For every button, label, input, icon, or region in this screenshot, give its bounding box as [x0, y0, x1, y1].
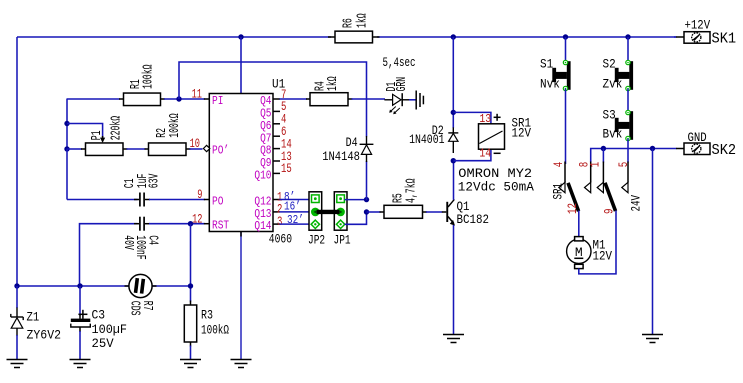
- svg-text:15: 15: [281, 162, 292, 176]
- zener Z1: [11, 308, 23, 337]
- wire JP1 bottom to node: [345, 211, 367, 224]
- label JP1: [334, 233, 351, 248]
- svg-text:JP1: JP1: [334, 233, 351, 248]
- wire pin1 drop: [602, 149, 604, 163]
- svg-text:S1: S1: [540, 57, 553, 72]
- wire Q14 to JP2: [280, 223, 312, 225]
- pin 4 Q6: [260, 113, 286, 133]
- junction node top-relay: [451, 34, 456, 39]
- wire Q12 to JP2: [280, 199, 312, 201]
- svg-text:Z1: Z1: [27, 310, 40, 325]
- junction node rail-R3: [188, 283, 193, 288]
- wire ground rail: [17, 285, 191, 287]
- svg-text:PO’: PO’: [212, 143, 229, 157]
- wire C1 left: [67, 199, 138, 201]
- svg-text:JP2: JP2: [308, 233, 325, 248]
- wire S2 top: [627, 37, 629, 60]
- pin 15 Q10: [254, 162, 291, 182]
- label SK2: [712, 142, 737, 159]
- potentiometer P1 leads: [81, 148, 128, 150]
- svg-text:5: 5: [617, 162, 631, 168]
- switch S1: [552, 60, 570, 90]
- label R6 value: [342, 13, 371, 28]
- junction node D4-R5: [364, 209, 369, 214]
- label P1 value: [90, 116, 125, 141]
- pin 12 RST: [192, 212, 229, 232]
- wire left rail: [16, 37, 18, 286]
- svg-text:1: 1: [589, 162, 603, 168]
- svg-text:25V: 25V: [92, 336, 114, 351]
- wire Q4 to R4: [280, 98, 308, 100]
- label U1: [272, 77, 285, 92]
- label R3: [201, 308, 229, 338]
- svg-text:R6: R6: [342, 18, 357, 28]
- svg-text:4: 4: [552, 162, 566, 168]
- capacitor C4: [134, 217, 150, 231]
- wire Z1 top: [16, 286, 18, 308]
- junction node top-IC: [238, 34, 243, 39]
- ground right: [642, 335, 663, 343]
- svg-text:1N4001: 1N4001: [409, 133, 444, 147]
- wire right ground drop: [652, 149, 654, 335]
- svg-text:RST: RST: [212, 219, 229, 233]
- junction node rail-left: [14, 283, 19, 288]
- label SK1: [712, 31, 737, 48]
- svg-text:ZY6V2: ZY6V2: [27, 328, 62, 343]
- label JP2: [308, 233, 325, 248]
- svg-text:32’: 32’: [287, 214, 304, 227]
- wire wiper: [67, 124, 103, 139]
- label C4 value: [120, 235, 159, 260]
- label timing: [383, 56, 416, 70]
- connector SK1: [684, 32, 710, 44]
- svg-text:12V: 12V: [593, 249, 613, 264]
- svg-text:220kΩ: 220kΩ: [110, 116, 125, 141]
- wire S1 to contact 4: [565, 89, 567, 165]
- label S3: [603, 108, 623, 142]
- label C3: [92, 308, 128, 352]
- wire R4 to LED: [352, 98, 386, 100]
- label SR1: [512, 116, 532, 141]
- wire P1 left lead: [67, 148, 82, 150]
- svg-text:Zvk: Zvk: [603, 77, 623, 92]
- wire C3 top: [79, 286, 81, 316]
- wire S1 top: [565, 37, 567, 60]
- svg-text:9: 9: [602, 209, 616, 215]
- svg-text:4060: 4060: [269, 232, 292, 247]
- svg-text:11: 11: [192, 88, 202, 102]
- wire node to R5: [367, 211, 381, 213]
- junction node gnd drop: [650, 146, 655, 151]
- wire R5 to base: [426, 211, 443, 213]
- label S1: [540, 57, 560, 92]
- wire to SK2: [676, 148, 684, 150]
- ground Q1: [443, 335, 464, 343]
- jumper JP1 body: [334, 192, 347, 230]
- label Z1: [27, 310, 62, 343]
- wire Z1 bottom: [16, 335, 18, 359]
- resistor R1: [124, 93, 161, 106]
- label R1 value: [129, 65, 157, 90]
- diode D1 LED: [384, 93, 410, 114]
- label 24V: [629, 195, 643, 212]
- potentiometer P1 wiper arrow: [100, 136, 105, 143]
- ground C3: [70, 360, 91, 368]
- label R7 value: [127, 301, 154, 316]
- resistor R5 leads: [380, 211, 428, 213]
- svg-text:C3: C3: [92, 308, 106, 323]
- svg-text:100µF: 100µF: [92, 322, 128, 337]
- label pin 8: [577, 162, 591, 168]
- junction node pin11: [176, 96, 181, 101]
- label C3 plus: [78, 310, 87, 319]
- label +12V: [685, 18, 711, 33]
- svg-text:4,7kΩ: 4,7kΩ: [405, 179, 420, 204]
- wire R3 bottom: [190, 346, 192, 360]
- ground R3: [180, 360, 201, 368]
- label D1: [385, 77, 410, 92]
- svg-text:24V: 24V: [629, 195, 643, 212]
- pin 11 PI: [192, 88, 224, 108]
- wire P1 feed vertical: [66, 99, 68, 150]
- wire C4 right to pin 12: [149, 223, 205, 225]
- svg-text:S2: S2: [603, 57, 616, 72]
- contact pin 5: [622, 162, 628, 193]
- wire P1-R2: [127, 148, 146, 150]
- resistor R3 leads: [190, 301, 192, 347]
- svg-text:GRN: GRN: [395, 77, 410, 92]
- svg-text:S3: S3: [603, 108, 616, 123]
- wire +12V rail left segment: [17, 36, 331, 38]
- potentiometer P1: [86, 143, 124, 156]
- svg-text:BC182: BC182: [457, 212, 490, 227]
- junction node wiper: [64, 121, 69, 126]
- contact pin 1: [597, 162, 603, 193]
- wire motor to contact 9: [579, 211, 616, 274]
- wire Q13 to JP2: [280, 211, 312, 213]
- label S2: [603, 57, 623, 92]
- jumper JP2 body: [309, 192, 322, 230]
- ground U1: [231, 360, 252, 368]
- label R2 value: [155, 113, 183, 138]
- wire R1 right to pin 11: [164, 98, 205, 100]
- svg-text:100kΩ: 100kΩ: [201, 323, 229, 338]
- label coil pin 13: [479, 113, 500, 126]
- svg-text:Nvk: Nvk: [540, 77, 560, 92]
- pin 2 Q13: [254, 201, 300, 222]
- pin 9 PO: [197, 188, 223, 208]
- label pin 5: [617, 162, 631, 168]
- wire RST drop: [190, 224, 192, 302]
- svg-text:1kΩ: 1kΩ: [326, 76, 341, 91]
- capacitor C3: [71, 315, 91, 332]
- resistor R4: [310, 93, 348, 106]
- svg-text:5,4sec: 5,4sec: [383, 56, 416, 70]
- svg-text:GND: GND: [688, 130, 707, 145]
- switch S3: [615, 110, 633, 140]
- label R4 value: [314, 76, 342, 91]
- pin 7 Q4: [260, 88, 286, 108]
- pin 14 Q8: [260, 137, 292, 157]
- contact moving 9: [605, 183, 616, 211]
- label pin 12: [566, 203, 580, 214]
- svg-text:R3: R3: [201, 308, 213, 323]
- resistor R1 leads: [119, 98, 165, 100]
- svg-text:13: 13: [479, 113, 491, 126]
- pin 10 PO': [190, 137, 230, 157]
- wire emitter to ground: [453, 225, 455, 334]
- relay coil SR1: [479, 124, 505, 149]
- svg-text:SK1: SK1: [712, 31, 737, 48]
- jumper link bar: [317, 210, 340, 214]
- pin 6 Q7: [260, 125, 286, 145]
- wire relay drop: [452, 37, 454, 128]
- wire D4 lower segment: [366, 161, 368, 200]
- junction node RST-R3: [188, 221, 193, 226]
- wire C1 right to pin 9: [149, 199, 205, 201]
- wire coil top link: [453, 112, 491, 124]
- wire +12V rail right segment: [377, 36, 676, 38]
- label M1: [593, 238, 613, 264]
- junction node top-S2: [625, 34, 630, 39]
- connector SK2: [684, 143, 710, 155]
- IC U1 4060 body: [209, 94, 273, 232]
- svg-text:PI: PI: [212, 94, 223, 108]
- label coil pin 14: [479, 148, 500, 161]
- ground D1 sideways: [416, 91, 423, 110]
- resistor R4 leads: [306, 98, 353, 100]
- pin 5 Q5: [260, 100, 286, 120]
- wire IC ground stub: [240, 232, 242, 360]
- svg-text:12V: 12V: [512, 126, 532, 141]
- svg-text:1N4148: 1N4148: [322, 150, 360, 164]
- motor M1: [567, 237, 591, 269]
- svg-text:40V: 40V: [120, 235, 135, 250]
- wire contact12 to motor: [578, 211, 580, 238]
- svg-text:14: 14: [479, 148, 491, 161]
- label D2: [409, 124, 444, 147]
- wire R2 to pin 10: [190, 148, 203, 150]
- svg-text:Q14: Q14: [254, 219, 271, 233]
- wire C1 vertical feed: [66, 149, 68, 200]
- pin 13 Q9: [260, 150, 292, 170]
- contact pin 8: [585, 162, 591, 193]
- svg-text:10: 10: [190, 137, 200, 151]
- contact pin 4: [559, 162, 565, 193]
- svg-text:SK2: SK2: [712, 142, 737, 159]
- wire LED to ground: [409, 99, 416, 101]
- pin 3 Q14: [254, 214, 303, 233]
- svg-text:12: 12: [192, 212, 202, 226]
- label D4: [322, 136, 360, 164]
- label OMRON: [458, 166, 534, 195]
- svg-text:SR1: SR1: [551, 183, 565, 200]
- svg-text:9: 9: [197, 188, 202, 202]
- label pin 1: [589, 162, 603, 168]
- pin 1 Q12: [254, 190, 295, 208]
- label pin 4: [552, 162, 566, 168]
- wire JP1 top to node: [345, 199, 367, 201]
- photoresistor R7: [129, 274, 152, 297]
- junction node P1 left: [64, 146, 69, 151]
- junction node coil top: [451, 110, 456, 115]
- junction node rail-C3: [77, 283, 82, 288]
- switch S2: [615, 60, 633, 90]
- svg-text:P1: P1: [90, 131, 105, 141]
- wire C3 bottom: [79, 331, 81, 359]
- label 4060: [269, 232, 292, 247]
- label GND: [688, 130, 707, 145]
- svg-text:63V: 63V: [148, 173, 163, 188]
- capacitor C1: [134, 193, 150, 207]
- wire pin11 riser: [179, 62, 367, 137]
- svg-text:3: 3: [277, 215, 282, 229]
- svg-text:1kΩ: 1kΩ: [356, 13, 371, 28]
- wire GND rail: [591, 149, 677, 163]
- resistor R6 leads: [328, 36, 380, 38]
- svg-text:100kΩ: 100kΩ: [168, 113, 183, 138]
- wire R1 left: [67, 98, 120, 100]
- label C1 value: [123, 173, 163, 188]
- wire C4 left: [80, 224, 138, 286]
- wire S3 down to contact 5: [627, 139, 629, 163]
- wire coil bottom link: [453, 149, 491, 161]
- label R5 value: [392, 179, 420, 204]
- junction node pin1: [601, 146, 606, 151]
- transistor Q1: [442, 199, 455, 225]
- wire IC V+ drop: [240, 37, 242, 94]
- resistor R3: [184, 305, 196, 342]
- contact moving 12: [568, 183, 579, 211]
- resistor R2 leads: [145, 148, 191, 150]
- jumper JP2 pads: [311, 195, 319, 229]
- label SR1 contacts: [551, 183, 565, 200]
- photoresistor R7 leads: [125, 285, 157, 287]
- svg-text:Q10: Q10: [254, 169, 271, 183]
- svg-text:PO: PO: [212, 194, 223, 208]
- junction node top-S1: [563, 34, 568, 39]
- jumper JP1 pads: [336, 195, 344, 229]
- junction node coil bottom: [451, 158, 456, 163]
- svg-text:+12V: +12V: [685, 18, 711, 33]
- svg-text:100kΩ: 100kΩ: [142, 65, 157, 90]
- wire collector: [453, 161, 455, 200]
- svg-text:CDS: CDS: [127, 301, 142, 316]
- resistor R5: [384, 205, 423, 218]
- svg-text:Bvk: Bvk: [603, 127, 623, 142]
- label pin 9: [602, 209, 616, 215]
- wire S2-S3: [627, 89, 629, 111]
- svg-text:12Vdc 50mA: 12Vdc 50mA: [458, 180, 534, 195]
- resistor R6: [335, 31, 373, 43]
- label Q1: [457, 199, 490, 227]
- junction node D4-Q12: [364, 197, 369, 202]
- diode D2: [448, 127, 458, 153]
- resistor R2: [149, 143, 187, 156]
- svg-text:D4: D4: [346, 136, 358, 150]
- wire to SK1: [674, 36, 684, 38]
- diode D4: [360, 136, 374, 162]
- ground Z1: [7, 360, 28, 368]
